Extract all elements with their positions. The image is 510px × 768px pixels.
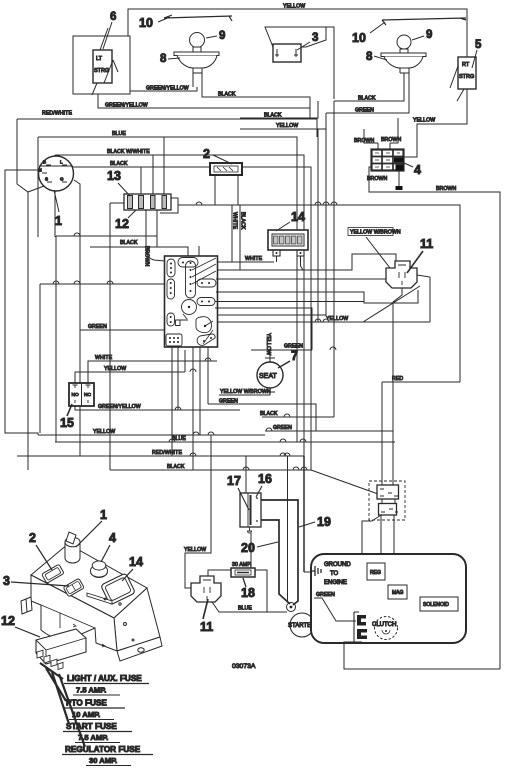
rocker switch 2 [42, 564, 65, 583]
wire black bus [110, 464, 311, 470]
svg-text:S: S [45, 177, 48, 182]
wire 10 left [164, 15, 232, 21]
wire relay16 right lower [261, 520, 290, 604]
svg-text:B: B [43, 160, 46, 165]
hour meter 14 [268, 230, 308, 256]
junction hops [169, 319, 336, 470]
wire black left lamp [202, 87, 310, 118]
label 16 [256, 472, 272, 497]
wire module right row5 [215, 301, 364, 303]
label 11 upper [407, 237, 433, 273]
wire white from 2 [215, 175, 238, 262]
svg-text:GREEN/YELLOW: GREEN/YELLOW [105, 103, 148, 109]
svg-text:2: 2 [29, 531, 36, 545]
wire yellow right [413, 89, 467, 153]
wire diag to relay16 [311, 470, 378, 494]
svg-text:18: 18 [241, 586, 255, 600]
wire 11 bottom to relay [393, 288, 402, 485]
console front face [31, 575, 117, 651]
label 1 console [76, 508, 107, 547]
label 9 left [206, 30, 225, 42]
wire seat bottom yellow w/brown [219, 389, 271, 395]
svg-text:03073A: 03073A [232, 663, 256, 670]
svg-text:7.5 AMP.: 7.5 AMP. [76, 686, 106, 695]
wire relay to mag [394, 499, 395, 585]
wire black from 2 [238, 175, 246, 270]
wire yellow mid [240, 113, 326, 129]
svg-text:REG: REG [370, 570, 381, 576]
switch 11 lower [191, 576, 221, 602]
svg-text:9: 9 [426, 29, 432, 41]
label 3 console [3, 574, 69, 588]
wire yellow top bus [128, 4, 467, 58]
wire black w/white [55, 149, 304, 456]
svg-text:BLACK: BLACK [218, 92, 236, 98]
console top face [31, 544, 147, 618]
label 6 [103, 11, 116, 49]
label 8 left [160, 53, 180, 65]
wire yellow bus [38, 429, 265, 588]
svg-text:PTO FUSE: PTO FUSE [66, 699, 107, 708]
svg-text:STRG: STRG [459, 74, 474, 80]
switch 15 [69, 383, 94, 406]
fuse label regulator [62, 745, 153, 766]
wire relay to reg [381, 499, 383, 504]
svg-text:YELLOW: YELLOW [104, 366, 126, 372]
svg-text:BLUE: BLUE [112, 131, 126, 137]
wire yellow vert label [265, 333, 271, 355]
svg-text:LIGHT / AUX. FUSE: LIGHT / AUX. FUSE [67, 674, 142, 683]
wire green lower right [265, 425, 393, 602]
svg-text:GREEN/YELLOW: GREEN/YELLOW [146, 86, 189, 92]
svg-text:7.5 AMP.: 7.5 AMP. [78, 733, 108, 742]
svg-text:BLACK: BLACK [120, 240, 138, 246]
wire fuse top 1 [140, 167, 142, 194]
svg-text:YELLOW: YELLOW [184, 547, 206, 553]
wire relay16 bottom to fuse [250, 533, 252, 568]
label 2 console [29, 531, 52, 570]
label 7 [278, 349, 298, 368]
fuse label start [63, 722, 132, 743]
svg-text:12: 12 [115, 217, 129, 231]
svg-text:8: 8 [160, 53, 167, 65]
lamp fixture right (8) [381, 53, 426, 73]
svg-text:LT: LT [96, 56, 103, 62]
svg-text:CLUTCH: CLUTCH [372, 622, 396, 628]
svg-text:3: 3 [312, 32, 318, 44]
svg-text:RT: RT [462, 62, 470, 68]
wire yellow to 15 [75, 366, 185, 383]
wire green/yellow left lamp [130, 86, 197, 92]
svg-text:15: 15 [60, 416, 74, 430]
svg-text:YELLOW: YELLOW [283, 4, 305, 10]
svg-text:SEAT: SEAT [259, 373, 277, 380]
wire red [382, 376, 460, 485]
wire meter to switch tab [240, 254, 396, 270]
wire fuse bottom [146, 210, 157, 248]
console arrows [73, 624, 105, 647]
wire brown conn4 top left [354, 129, 378, 149]
wire blue starter [212, 602, 287, 612]
label 14 meter [276, 210, 305, 231]
wire black right lamp [334, 73, 404, 102]
wire module left 2 [40, 283, 164, 285]
svg-text:WHITE: WHITE [245, 256, 263, 262]
reg box [367, 563, 385, 580]
svg-text:30 AMP.: 30 AMP. [232, 562, 252, 568]
node battery post [287, 603, 296, 612]
wire clutch bottom loop [344, 642, 500, 669]
wire left vertical red/white short [16, 119, 18, 184]
wire brown conn4 top right [381, 118, 402, 149]
svg-text:YELLOW W/BROWN: YELLOW W/BROWN [220, 389, 271, 395]
console right face [114, 588, 160, 651]
wire module bottom leads [172, 346, 208, 470]
svg-text:NC: NC [84, 392, 91, 398]
svg-text:11: 11 [200, 620, 213, 634]
wire module right row2 [217, 269, 240, 271]
svg-text:9: 9 [219, 30, 225, 42]
label 15 [60, 404, 74, 430]
svg-text:10: 10 [139, 16, 153, 30]
wire red/white top [17, 111, 317, 138]
meter recess 14 [101, 573, 136, 605]
fuse 18 [231, 562, 255, 577]
svg-text:YELLOW: YELLOW [276, 123, 298, 129]
clutch connector [354, 612, 367, 642]
wire relay16 top [245, 456, 247, 493]
console assembly pictorial [21, 532, 162, 661]
wire left vertical b [54, 155, 56, 237]
svg-text:GREEN: GREEN [284, 344, 303, 350]
svg-text:10 AMP.: 10 AMP. [72, 710, 100, 719]
fuse block 13/12 [110, 194, 178, 213]
console small holes [119, 603, 121, 605]
svg-text:BLACK W/WHITE: BLACK W/WHITE [107, 149, 150, 155]
svg-text:30 AMP.: 30 AMP. [89, 756, 117, 765]
svg-text:1: 1 [55, 214, 62, 228]
lamp bulb right (9) [397, 35, 411, 53]
central module [165, 256, 218, 347]
console slot [87, 593, 112, 604]
wire conn4 bottom pad [396, 171, 403, 190]
console right foot [117, 637, 162, 661]
svg-text:BROWN: BROWN [144, 246, 150, 267]
wire keyswitch M left loop [5, 170, 42, 435]
label 5 [472, 39, 482, 68]
svg-text:11: 11 [420, 237, 433, 251]
svg-text:RED/WHITE: RED/WHITE [42, 111, 72, 117]
fuse block 12 pictorial [36, 629, 86, 670]
label 20 [241, 541, 278, 555]
svg-text:14: 14 [291, 210, 305, 224]
svg-text:BROWN: BROWN [367, 176, 388, 182]
ground to engine [304, 562, 351, 586]
svg-text:RED/WHITE: RED/WHITE [152, 450, 182, 456]
fuse label pto [63, 699, 125, 720]
svg-text:17: 17 [227, 474, 241, 488]
svg-text:16: 16 [258, 472, 272, 486]
wire left vertical a [39, 284, 41, 433]
svg-text:BLACK: BLACK [240, 212, 246, 230]
mag box [388, 585, 407, 599]
fuse wires [40, 663, 85, 747]
svg-text:3: 3 [3, 574, 10, 588]
svg-text:GREEN: GREEN [355, 108, 374, 114]
svg-text:7: 7 [291, 349, 298, 363]
relay 16/17 [240, 493, 261, 533]
wire module right row6 [216, 314, 326, 316]
node right lamp frame [265, 27, 334, 99]
rocker switch 3 [63, 578, 84, 597]
wire brown conn4 bottom left [367, 167, 500, 669]
label 18 [241, 578, 255, 600]
wire green/yellow bus [75, 404, 240, 410]
key switch U1 (1) [17, 156, 74, 470]
clutch [372, 617, 398, 640]
wire yellow mid vertical [317, 129, 319, 322]
wire blue bus [55, 436, 395, 442]
wire fuse top 2 [152, 155, 154, 194]
svg-text:13: 13 [107, 169, 121, 183]
svg-text:4: 4 [414, 163, 421, 177]
label 4 conn [402, 162, 421, 177]
connector 2 [210, 163, 242, 175]
svg-text:BLUE: BLUE [172, 436, 186, 442]
lamp fixture left (8) [174, 52, 219, 87]
svg-text:BROWN: BROWN [436, 186, 457, 192]
svg-text:GROUND: GROUND [324, 562, 351, 568]
svg-text:G: G [60, 177, 64, 182]
svg-text:BLACK: BLACK [260, 411, 278, 417]
label 8 right [366, 51, 387, 63]
svg-text:RED: RED [392, 376, 403, 382]
svg-text:TO: TO [330, 571, 339, 577]
svg-text:6: 6 [110, 11, 116, 23]
label 10 left [139, 16, 170, 30]
label 14 console [122, 555, 143, 581]
svg-text:GREEN: GREEN [273, 425, 292, 431]
svg-text:10: 10 [352, 31, 366, 45]
knob 4 [91, 561, 108, 578]
label yellow w/brown boxed [348, 228, 401, 236]
svg-text:BLACK: BLACK [358, 96, 376, 102]
wire upper module top [56, 236, 157, 246]
label 9 right [412, 29, 432, 41]
label 3 top [297, 32, 318, 50]
wire brown vert module [144, 246, 200, 267]
wire module right row3 [216, 278, 386, 280]
wire black mid vertical [333, 101, 335, 417]
svg-text:5: 5 [475, 39, 482, 51]
svg-text:BLACK: BLACK [110, 161, 128, 167]
wire green starter engine [314, 592, 356, 621]
svg-text:14: 14 [129, 555, 143, 569]
label 12 fuse [115, 210, 136, 231]
svg-text:12: 12 [1, 614, 15, 628]
label 2 [203, 147, 232, 164]
wire white to 15 [88, 355, 217, 383]
switch RT STRG (5) [450, 57, 476, 101]
svg-text:SOLENOID: SOLENOID [423, 602, 449, 608]
seat switch 7 [257, 358, 283, 392]
svg-text:GREEN: GREEN [88, 324, 107, 330]
svg-text:ENGINE: ENGINE [324, 580, 347, 586]
wire meter leads [277, 256, 304, 270]
label 17 [227, 474, 249, 510]
wire green seat lower [208, 399, 316, 432]
svg-text:WHITE: WHITE [95, 355, 113, 361]
svg-text:YELLOW: YELLOW [413, 118, 435, 124]
wire module left 3 [80, 324, 164, 330]
label 19 [299, 515, 331, 529]
wire relay16 right upper [261, 500, 298, 605]
svg-text:1: 1 [100, 508, 107, 522]
svg-text:STRG: STRG [94, 68, 109, 74]
label 10 right [352, 22, 385, 45]
label 12 console [1, 614, 40, 637]
svg-text:GREEN: GREEN [219, 399, 238, 405]
wire black mid [240, 101, 318, 119]
svg-text:YELLOW: YELLOW [93, 429, 115, 435]
svg-text:WHITE: WHITE [232, 212, 238, 230]
key cylinder 1 [65, 532, 80, 563]
relay block dashed [369, 481, 405, 520]
svg-text:GREEN: GREEN [316, 592, 335, 598]
svg-text:4: 4 [109, 531, 116, 545]
label 4 console [101, 531, 116, 562]
wire conn4 right yellow [404, 153, 417, 157]
wire fuse18 left [208, 570, 231, 576]
wire red/white bus [17, 450, 304, 456]
wire keyswitch to bus [74, 180, 80, 456]
wire 11 right loop [417, 275, 430, 322]
svg-text:BLUE: BLUE [238, 606, 252, 612]
svg-text:19: 19 [317, 515, 331, 529]
label 11 lower [200, 599, 213, 634]
wire module right row4 [216, 290, 418, 303]
svg-text:M: M [38, 168, 42, 173]
wire diag to 11 [366, 237, 390, 268]
wire solenoid drop [362, 515, 420, 606]
label 1 keyswitch [54, 190, 62, 228]
solenoid box [420, 597, 458, 611]
svg-text:MAG: MAG [392, 590, 404, 596]
svg-text:BLACK: BLACK [167, 464, 185, 470]
wire white module right [217, 256, 274, 262]
lamp bulb left (9) [190, 33, 205, 53]
svg-text:START FUSE: START FUSE [66, 722, 117, 731]
node left frame [73, 36, 130, 94]
wire white right branch [178, 205, 460, 382]
relay bracket (3) [265, 27, 326, 62]
wire seat top green [215, 308, 312, 358]
svg-text:REGULATOR FUSE: REGULATOR FUSE [65, 745, 141, 754]
connector 4 [372, 150, 404, 171]
svg-text:BLACK: BLACK [264, 113, 282, 119]
svg-text:20: 20 [241, 541, 255, 555]
label 13 [107, 169, 130, 196]
wire blue [38, 131, 297, 442]
svg-text:2: 2 [203, 147, 210, 161]
wire black module top [90, 203, 188, 470]
engine box [311, 554, 466, 643]
wire green/yellow lower [98, 94, 310, 109]
svg-text:GREEN/YELLOW: GREEN/YELLOW [98, 404, 141, 410]
console left foot [21, 597, 32, 614]
wire black keyswitch [73, 161, 311, 470]
svg-text:YELLOW: YELLOW [265, 333, 271, 355]
fuse label light/aux [64, 674, 149, 695]
starter motor [288, 613, 316, 637]
wire green mid vertical [325, 113, 327, 315]
svg-text:8: 8 [366, 51, 373, 63]
wire yellow seat bus [217, 286, 430, 322]
svg-text:NO: NO [72, 392, 79, 398]
wire 10 right [382, 18, 466, 25]
svg-text:YELLOW W/BROWN: YELLOW W/BROWN [350, 230, 401, 236]
switch LT STRG (6) [92, 28, 118, 95]
wire green right lamp [326, 73, 409, 114]
wire fuse top 3 [163, 137, 165, 194]
wire left vertical blue [37, 137, 39, 237]
switch 11 upper [386, 261, 417, 288]
wire black lower right [260, 411, 334, 572]
wire fuse18 right [255, 570, 267, 612]
